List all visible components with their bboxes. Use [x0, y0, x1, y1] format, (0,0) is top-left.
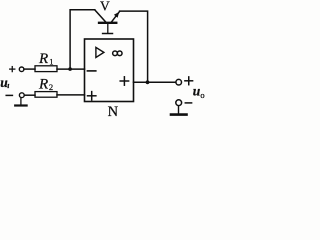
- transistor V: base bar: [99, 22, 116, 24]
- op-amp noninverting input label +: [88, 92, 96, 100]
- node B: output junction dot: [146, 80, 150, 84]
- op-amp inverting input label -: [87, 70, 95, 72]
- svg-text:V: V: [100, 0, 110, 13]
- ground (left, under - input terminal): [15, 98, 26, 106]
- svg-text:2: 2: [49, 82, 53, 92]
- terminal: output - circle: [176, 100, 182, 106]
- transistor V: base terminal T-bar: [103, 33, 113, 35]
- svg-text:R: R: [38, 77, 48, 93]
- op-amp output polarity label +: [120, 77, 128, 85]
- terminal: input + circle: [19, 67, 24, 72]
- transistor V: base lead stub: [107, 24, 109, 33]
- op-amp U1 box N: [85, 39, 134, 102]
- node A: junction of R1 wire and feedback line: [68, 67, 72, 71]
- ground (right, under - output terminal): [171, 106, 187, 115]
- wire: input - terminal to R2: [24, 94, 35, 96]
- terminal: output + circle: [176, 79, 182, 85]
- wire: left vertical feedback line: [70, 10, 95, 69]
- resistor R1: [35, 66, 57, 72]
- label: - at input terminal: [6, 94, 12, 96]
- label: - at lower output terminal: [185, 102, 191, 104]
- transistor V: emitter lead: [95, 10, 106, 22]
- op-amp infinity symbol: [113, 51, 122, 56]
- svg-text:N: N: [108, 104, 119, 118]
- svg-text:R: R: [38, 51, 48, 67]
- wire: collector to top-right corner: [120, 11, 148, 82]
- svg-text:ı: ı: [7, 81, 9, 90]
- op-amp triangle symbol: [96, 47, 104, 57]
- svg-text:1: 1: [49, 57, 53, 67]
- wire: R1 to op-amp inverting input: [57, 68, 85, 70]
- wire: input + terminal to R1: [24, 68, 35, 70]
- resistor R2: [35, 92, 57, 98]
- label: + at output terminal: [185, 77, 193, 85]
- svg-text:o: o: [200, 90, 204, 100]
- transistor V: collector lead with arrow: [111, 11, 119, 22]
- label: + at input terminal: [10, 67, 15, 72]
- wire: op-amp output to output terminal: [134, 81, 176, 83]
- terminal: input - circle: [19, 93, 24, 98]
- wire: R2 to op-amp noninverting input: [57, 94, 85, 96]
